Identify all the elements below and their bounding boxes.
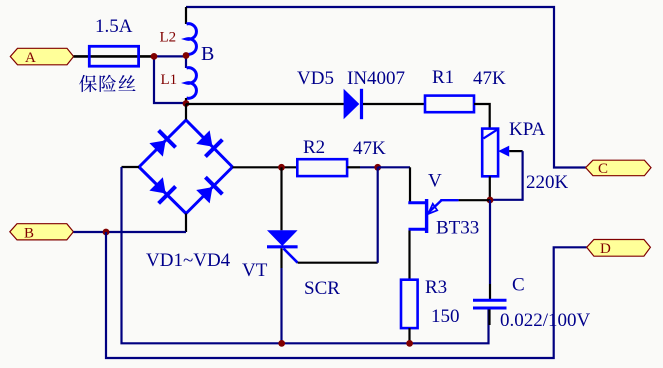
wire outer loop B to D: [106, 232, 587, 358]
thyristor VT SCR: [267, 167, 298, 262]
svg-text:B: B: [201, 43, 214, 65]
svg-text:BT33: BT33: [436, 218, 479, 239]
wire pot bottom lead: [489, 176, 491, 200]
svg-text:47K: 47K: [353, 138, 386, 159]
port D: [587, 240, 651, 258]
wire L1 bottom: [185, 98, 187, 104]
wire bridge bottom stub: [185, 214, 187, 233]
svg-text:VD1~VD4: VD1~VD4: [146, 250, 231, 271]
svg-text:KPA: KPA: [509, 119, 546, 140]
wire R3 bottom: [408, 328, 410, 343]
wire tap segment: [185, 54, 187, 68]
node R3 rail dot: [406, 340, 413, 347]
potentiometer KPA: [482, 129, 509, 177]
transformer B top lead: [185, 7, 187, 24]
wire wiper wrap: [509, 150, 522, 152]
svg-text:C: C: [512, 275, 525, 296]
wire bridge left stub: [122, 166, 140, 168]
svg-text:C: C: [598, 161, 608, 177]
diode VD1 top-left: [148, 129, 177, 158]
wire through fuse: [91, 55, 154, 58]
resistor R1: [425, 96, 474, 113]
bridge edge top-left: [139, 120, 186, 167]
node B dot: [103, 229, 110, 236]
diode VD5: [344, 89, 364, 119]
svg-text:VD5: VD5: [297, 68, 334, 89]
svg-text:A: A: [25, 50, 36, 66]
wire emitter to node: [459, 199, 490, 201]
node SCR anode dot: [278, 164, 285, 171]
wire bridge right to R2: [233, 166, 298, 168]
fuse 1.5A: [89, 46, 138, 66]
svg-text:47K: 47K: [473, 68, 506, 89]
svg-text:D: D: [600, 241, 611, 257]
inductor L1: [187, 68, 197, 99]
wire left drop and negative rail to capacitor: [122, 167, 489, 343]
wire B1 down to R3: [408, 231, 410, 280]
svg-text:150: 150: [431, 306, 460, 327]
svg-text:L2: L2: [160, 30, 177, 46]
svg-text:1.5A: 1.5A: [95, 16, 133, 37]
bridge edge bottom-left: [139, 167, 186, 214]
wire VD5 to R1: [363, 103, 425, 105]
port C: [586, 160, 651, 177]
node winding bottom dot: [183, 100, 190, 107]
svg-text:R3: R3: [425, 277, 447, 298]
svg-text:SCR: SCR: [304, 278, 340, 299]
svg-text:VT: VT: [242, 260, 268, 281]
svg-text:L1: L1: [161, 72, 178, 88]
resistor R2: [297, 159, 347, 176]
node pot/emitter/cap dot: [487, 197, 494, 204]
diode VD3 bottom-left: [148, 175, 177, 204]
inductor L2: [187, 24, 197, 55]
wire B to bridge bottom: [73, 231, 186, 233]
bridge edge top-right: [186, 120, 233, 167]
svg-text:R2: R2: [303, 137, 325, 158]
node fuse dot: [151, 53, 158, 60]
node SCR rail dot: [278, 340, 285, 347]
wire bridge top stub: [185, 104, 187, 121]
svg-text:220K: 220K: [526, 172, 569, 193]
bridge edge bottom-right: [186, 167, 233, 214]
wire fuse node to transformer tap: [154, 55, 186, 57]
wire bypass from fuse node down to winding bottom: [154, 56, 186, 103]
svg-text:R1: R1: [432, 67, 454, 88]
svg-text:0.022/100V: 0.022/100V: [500, 310, 591, 331]
diode VD2 top-right: [194, 129, 223, 158]
svg-text:V: V: [428, 171, 442, 192]
node R2/gate dot: [374, 164, 381, 171]
node tap dot: [183, 52, 190, 59]
wire R1 to pot top: [474, 104, 490, 129]
svg-text:B: B: [24, 226, 34, 242]
resistor R3: [401, 280, 418, 328]
port A: [10, 48, 73, 66]
capacitor C: [473, 200, 507, 325]
transistor V BT33: [408, 199, 458, 233]
wire SCR gate: [298, 262, 378, 264]
wire top rail from transformer top to C branch: [186, 7, 586, 168]
svg-text:IN4007: IN4007: [347, 68, 405, 89]
wire R2 right: [347, 166, 360, 168]
port B: [10, 224, 74, 242]
wire A to fuse: [74, 55, 91, 58]
diode VD4 bottom-right: [194, 176, 223, 205]
wire SCR cathode: [280, 248, 282, 268]
label fuse chinese: [79, 75, 97, 92]
wire R2 node to UJT: [378, 166, 410, 168]
wire VD5 line: [186, 103, 344, 105]
